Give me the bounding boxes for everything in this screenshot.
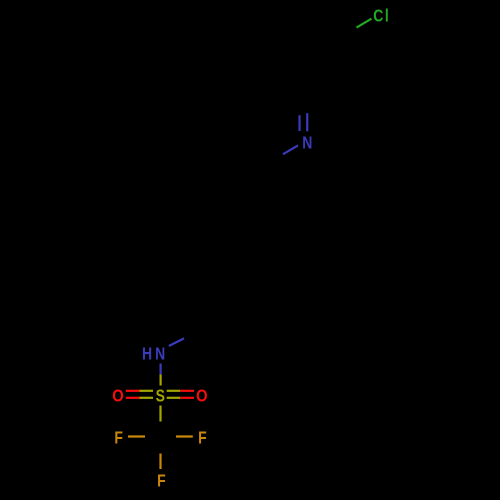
svg-text:O: O <box>112 386 123 405</box>
svg-text:H: H <box>142 345 152 364</box>
wire S=O left double bond lower line (red half / olive half) <box>126 397 140 399</box>
wire C=N double bond inner line (blue half) <box>298 115 300 131</box>
svg-text:O: O <box>196 386 207 405</box>
svg-text:N: N <box>302 134 312 153</box>
svg-text:C: C <box>373 7 383 26</box>
svg-text:F: F <box>198 429 207 448</box>
wire N-S bond lower half (olive) <box>160 375 162 386</box>
wire Cl-C bond (green half) <box>357 19 372 28</box>
wire S-C bond (olive half) <box>159 406 161 422</box>
svg-text:F: F <box>114 429 123 448</box>
wire S=O right double bond lower line (olive half / red half) <box>167 397 181 399</box>
wire N-C bond down-left (blue half) <box>283 145 298 154</box>
wire S=O left double bond upper line (red half / olive half) <box>126 390 140 392</box>
wire S=O right double bond upper line (olive half / red half) <box>167 390 181 392</box>
wire C=N double bond main line (blue half) <box>306 113 308 131</box>
svg-text:S: S <box>156 387 165 406</box>
wire C-F left bond (gold half) <box>128 435 145 437</box>
svg-text:F: F <box>157 472 166 491</box>
wire N-C bond up-right (blue half) <box>169 338 184 346</box>
wire C-F right bond (gold half) <box>176 435 193 437</box>
wire C-F bottom bond (gold half) <box>159 454 161 470</box>
svg-text:l: l <box>385 7 389 26</box>
svg-text:N: N <box>155 345 165 364</box>
wire N-S bond upper half (blue) <box>160 364 162 375</box>
